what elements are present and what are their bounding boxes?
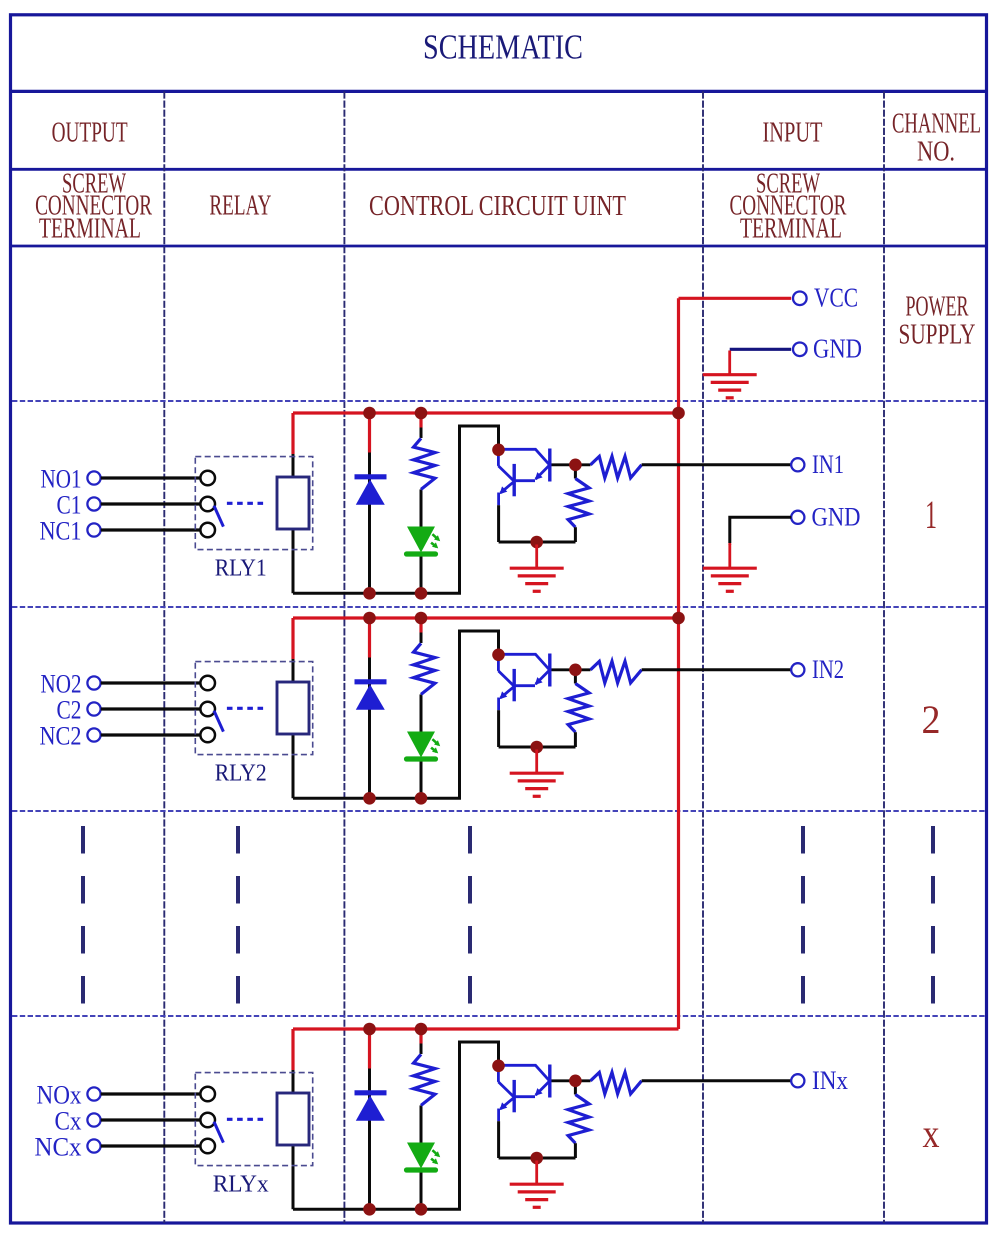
svg-text:INx: INx xyxy=(812,1066,848,1095)
relay contact xyxy=(200,702,215,717)
wire NO1 xyxy=(101,476,201,479)
junction xyxy=(363,1203,376,1216)
junction xyxy=(363,1023,376,1036)
junction xyxy=(363,587,376,600)
wire GND power xyxy=(730,348,792,351)
wire diode branch xyxy=(368,413,371,453)
wire LED branch xyxy=(419,413,422,428)
transistor Q1b xyxy=(513,464,516,496)
wire coil bottom xyxy=(292,734,295,798)
ground xyxy=(535,545,538,569)
svg-text:SUPPLY: SUPPLY xyxy=(899,320,976,351)
ground xyxy=(728,544,731,568)
LED LED1 xyxy=(407,527,435,553)
wire C2 xyxy=(101,707,201,710)
relay linkage dots xyxy=(227,1118,265,1121)
terminal GND power xyxy=(793,343,807,357)
resistor R2c series xyxy=(591,661,642,683)
LED arrows xyxy=(432,534,438,540)
wire coil bottom xyxy=(292,529,295,593)
relay switch arm xyxy=(214,506,223,527)
svg-text:CHANNEL: CHANNEL xyxy=(892,109,981,140)
wire NC1 xyxy=(101,528,201,531)
row separator dashed line 4 xyxy=(12,1015,985,1017)
junction xyxy=(415,1023,428,1036)
wire base xyxy=(552,463,591,466)
LED arrows xyxy=(432,1150,438,1156)
terminal INx xyxy=(791,1074,804,1087)
ground xyxy=(535,750,538,774)
wire VCC xyxy=(679,297,792,300)
relay contact xyxy=(200,1139,215,1154)
junction emitter gnd xyxy=(530,536,543,549)
terminal IN2 xyxy=(791,663,804,676)
resistor R1a xyxy=(414,438,436,489)
transistor Qxa xyxy=(548,1065,551,1098)
wire IN2 xyxy=(642,668,792,671)
relay RLYx box xyxy=(195,1073,312,1166)
wire coil top xyxy=(291,413,294,454)
svg-text:POWER: POWER xyxy=(906,292,969,323)
resistor Rxa xyxy=(414,1054,436,1105)
junction xyxy=(672,407,685,420)
wire NCx xyxy=(101,1144,201,1147)
continuation ellipsis column 4 xyxy=(801,826,805,1004)
relay coil RLY1 xyxy=(277,477,309,529)
junction xyxy=(415,1203,428,1216)
diode D1 xyxy=(355,474,387,479)
relay switch arm xyxy=(214,1122,223,1143)
header bottom line xyxy=(9,245,988,248)
resistor R2a xyxy=(414,643,436,694)
row separator dashed line 3 xyxy=(12,810,985,812)
relay contact xyxy=(200,676,215,691)
row separator dashed line 2 xyxy=(12,606,985,608)
svg-text:NC2: NC2 xyxy=(40,721,82,750)
continuation ellipsis column 3 xyxy=(468,826,472,1004)
resistor R1c series xyxy=(591,456,642,478)
svg-text:VCC: VCC xyxy=(814,282,858,312)
relay contact xyxy=(200,497,215,512)
junction xyxy=(363,612,376,625)
wire NOx xyxy=(101,1092,201,1095)
junction base node xyxy=(569,459,582,472)
diode D2 xyxy=(355,679,387,684)
relay contact xyxy=(200,523,215,538)
svg-text:1: 1 xyxy=(925,492,937,537)
transistor Q1a xyxy=(548,449,551,482)
junction emitter gnd xyxy=(530,1152,543,1165)
wire coil top xyxy=(291,618,294,659)
junction xyxy=(363,407,376,420)
svg-text:RLY1: RLY1 xyxy=(215,556,267,582)
terminal GND channel 1 xyxy=(791,511,804,524)
wire NC2 xyxy=(101,733,201,736)
wire VCC rail channel 2 xyxy=(293,616,679,619)
wire VCC rail channel 1 xyxy=(293,411,679,414)
continuation ellipsis column 5 xyxy=(931,826,935,1004)
svg-text:NOx: NOx xyxy=(37,1080,82,1109)
diode Dx xyxy=(355,1090,387,1095)
resistor R1b pulldown xyxy=(574,465,577,479)
header row line xyxy=(9,168,988,171)
svg-text:x: x xyxy=(923,1111,940,1156)
title separator xyxy=(9,90,988,93)
junction collector node xyxy=(492,649,505,662)
relay RLY2 box xyxy=(195,662,312,755)
wire VCC rail channel x xyxy=(293,1027,679,1030)
junction xyxy=(415,587,428,600)
relay contact xyxy=(200,1113,215,1128)
junction xyxy=(672,612,685,625)
wire C1 xyxy=(101,502,201,505)
relay switch arm xyxy=(214,711,223,732)
relay coil RLYx xyxy=(277,1093,309,1145)
svg-text:INPUT: INPUT xyxy=(763,118,823,149)
svg-text:GND: GND xyxy=(813,333,862,363)
transistor Q2a xyxy=(548,654,551,687)
wire emitter rail xyxy=(499,1157,576,1160)
ground xyxy=(728,351,731,375)
svg-text:NO.: NO. xyxy=(917,137,955,168)
wire diode branch xyxy=(368,1029,371,1069)
junction base node xyxy=(569,664,582,677)
svg-text:CONTROL CIRCUIT UINT: CONTROL CIRCUIT UINT xyxy=(369,191,626,222)
junction xyxy=(415,612,428,625)
wire bottom rail xyxy=(293,631,499,798)
svg-text:2: 2 xyxy=(922,697,941,742)
svg-text:TERMINAL: TERMINAL xyxy=(39,214,141,245)
junction xyxy=(415,407,428,420)
wire GND channel 1 xyxy=(730,517,791,543)
wire INx xyxy=(642,1079,792,1082)
wire LED branch xyxy=(419,1029,422,1044)
resistor Rxc series xyxy=(591,1072,642,1094)
svg-text:TERMINAL: TERMINAL xyxy=(740,214,842,245)
svg-text:NCx: NCx xyxy=(35,1132,82,1161)
junction xyxy=(415,792,428,805)
junction emitter gnd xyxy=(530,741,543,754)
svg-text:NC1: NC1 xyxy=(40,516,82,545)
svg-text:RELAY: RELAY xyxy=(209,191,271,222)
relay contact xyxy=(200,728,215,743)
svg-text:GND: GND xyxy=(812,503,861,532)
svg-text:RLYx: RLYx xyxy=(213,1172,269,1198)
wire emitter rail xyxy=(499,541,576,544)
relay coil RLY2 xyxy=(277,682,309,734)
svg-text:NO1: NO1 xyxy=(41,464,82,493)
relay contact xyxy=(200,1087,215,1102)
LED LEDx xyxy=(407,1143,435,1169)
LED arrows xyxy=(432,739,438,745)
svg-text:OUTPUT: OUTPUT xyxy=(52,118,128,149)
transistor Q2b xyxy=(513,669,516,701)
junction collector node xyxy=(492,1060,505,1073)
relay linkage dots xyxy=(227,707,265,710)
wire base xyxy=(552,1079,591,1082)
svg-text:IN2: IN2 xyxy=(812,655,844,684)
junction base node xyxy=(569,1075,582,1088)
svg-text:IN1: IN1 xyxy=(812,450,844,479)
row separator dashed line 1 xyxy=(12,400,985,402)
wire NO2 xyxy=(101,681,201,684)
resistor R2b pulldown xyxy=(574,670,577,684)
wire bottom rail xyxy=(293,426,499,593)
wire emitter rail xyxy=(499,746,576,749)
wire coil bottom xyxy=(292,1145,295,1209)
column divider dashed line 1 xyxy=(163,91,165,1223)
LED LED2 xyxy=(407,732,435,758)
column divider dashed line 2 xyxy=(343,91,345,1223)
wire bottom rail xyxy=(293,1042,499,1209)
wire base xyxy=(552,668,591,671)
relay RLY1 box xyxy=(195,457,312,550)
wire Cx xyxy=(101,1118,201,1121)
resistor Rxb pulldown xyxy=(574,1081,577,1095)
svg-text:C2: C2 xyxy=(57,695,82,724)
continuation ellipsis column 1 xyxy=(81,826,85,1004)
relay linkage dots xyxy=(227,502,265,505)
wire IN1 xyxy=(642,463,792,466)
continuation ellipsis column 2 xyxy=(236,826,240,1004)
svg-text:C1: C1 xyxy=(57,490,82,519)
wire coil top xyxy=(291,1029,294,1070)
column divider dashed line 3 xyxy=(702,91,704,1223)
svg-text:RLY2: RLY2 xyxy=(215,761,267,787)
svg-text:Cx: Cx xyxy=(55,1106,82,1135)
wire diode branch xyxy=(368,618,371,658)
relay contact xyxy=(200,471,215,486)
terminal VCC xyxy=(793,292,807,306)
transistor Qxb xyxy=(513,1080,516,1112)
wire VCC trunk xyxy=(677,298,680,1029)
ground xyxy=(535,1161,538,1185)
svg-text:NO2: NO2 xyxy=(41,669,82,698)
column divider dashed line 4 xyxy=(883,91,885,1223)
terminal IN1 xyxy=(791,458,804,471)
junction collector node xyxy=(492,444,505,457)
svg-text:SCHEMATIC: SCHEMATIC xyxy=(423,28,583,67)
wire LED branch xyxy=(419,618,422,633)
junction xyxy=(363,792,376,805)
